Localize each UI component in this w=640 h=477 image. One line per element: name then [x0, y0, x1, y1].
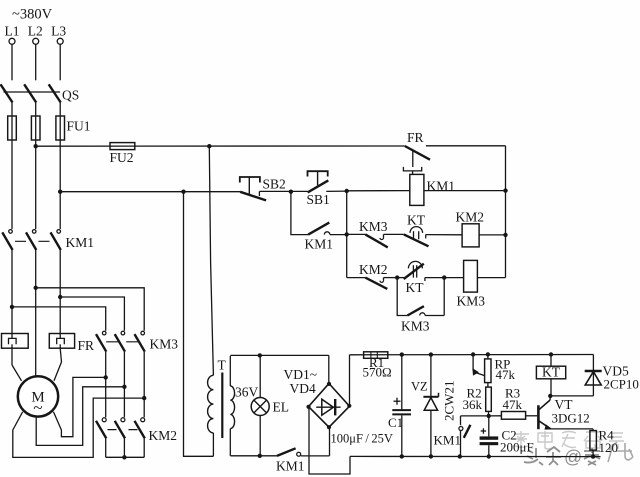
svg-text:VD4: VD4 — [290, 381, 316, 396]
wire star shorting bar — [106, 456, 145, 458]
svg-text:100μF / 25V: 100μF / 25V — [331, 432, 393, 446]
svg-text:T: T — [218, 358, 227, 373]
svg-text:C1: C1 — [388, 415, 403, 430]
wire L3 rail down transformer left — [184, 192, 214, 457]
wire C L1 to KM3 pole1 — [12, 307, 106, 331]
lamp EL — [251, 355, 289, 455]
svg-text:47k: 47k — [503, 397, 523, 412]
svg-text:570Ω: 570Ω — [363, 365, 392, 380]
node RP top rail — [486, 352, 490, 356]
node EL bottom — [258, 454, 262, 458]
node KM3 coil left junction — [442, 275, 446, 279]
svg-text:L1: L1 — [5, 23, 20, 38]
wire QS to FU1 pole3 — [59, 103, 61, 117]
wire right control rail — [505, 146, 507, 278]
contactor KM3 main contacts — [96, 331, 178, 351]
pushbutton SB1 start — [291, 171, 347, 207]
node RP wiper rail — [471, 352, 475, 356]
wire KM3 coil to right rail — [477, 277, 505, 279]
wire DC bottom rail — [350, 455, 601, 457]
node bridge left corner — [306, 405, 310, 409]
svg-text:KT: KT — [542, 365, 561, 380]
svg-text:SB2: SB2 — [263, 176, 286, 191]
resistor R4 — [551, 428, 618, 457]
contact KM2 auxiliary NO — [347, 262, 398, 289]
terminal L3 — [51, 23, 66, 44]
node SB2-SB1 junction — [289, 190, 293, 194]
node1 delta-star junction — [104, 375, 108, 379]
svg-text:47k: 47k — [496, 367, 516, 382]
contactor KM2 main contacts — [96, 418, 177, 443]
wire L1 terminal to QS — [11, 44, 13, 80]
node KT top rail — [549, 352, 553, 356]
svg-text:KM1: KM1 — [66, 235, 95, 250]
svg-text:L2: L2 — [28, 23, 43, 38]
wire W2 motor to node1 — [54, 377, 106, 436]
svg-text:KT: KT — [407, 213, 426, 228]
bridge rectifier VD1~VD4 — [284, 367, 350, 427]
node R2 bottom junction — [487, 414, 491, 418]
resistor R3 — [489, 386, 526, 420]
svg-text:KM1: KM1 — [276, 459, 305, 474]
watermark outline char 代 — [608, 442, 633, 462]
contact KM1 NC discharge — [434, 416, 489, 457]
node C1 bottom — [400, 454, 404, 458]
svg-text:VD1~: VD1~ — [284, 367, 318, 382]
label 36V — [235, 385, 259, 400]
wire QS to FU1 pole2 — [35, 103, 37, 117]
node C1 top — [400, 352, 404, 356]
wire FU2 rail down to transformer primary — [209, 146, 213, 375]
svg-text:SB1: SB1 — [307, 192, 330, 207]
wire bridge DC minus jog — [309, 407, 350, 474]
node KT NC left junction — [395, 275, 399, 279]
svg-text:200μF: 200μF — [500, 440, 534, 455]
node bridge bottom corner — [327, 425, 331, 429]
svg-text:36V: 36V — [235, 385, 259, 400]
label T — [218, 358, 227, 373]
pushbutton SB2 stop — [240, 176, 291, 200]
wire rail after FR to right rail — [426, 145, 506, 147]
svg-text:FR: FR — [407, 130, 424, 145]
node KM1 coil right rail — [503, 188, 507, 192]
node FU2 rail to transformer — [207, 144, 211, 148]
thermal relay FR heater element 1 — [2, 334, 29, 381]
wire L3 terminal to QS — [59, 44, 61, 80]
node star bar junction — [122, 455, 126, 459]
wire V2 motor to node2 — [36, 387, 124, 446]
wire SB2 junction down to KM1 aux — [291, 192, 308, 235]
fuse FU2 — [110, 143, 135, 165]
node VZ top — [429, 352, 433, 356]
switch QS — [1, 84, 80, 102]
node C wireB tap — [58, 295, 62, 299]
svg-text:KM3: KM3 — [359, 219, 388, 234]
label ~380V — [12, 7, 53, 23]
svg-text:QS: QS — [62, 88, 79, 103]
resistor R1 — [363, 352, 392, 380]
node2 delta-star junction — [122, 385, 126, 389]
node EL top — [258, 353, 262, 357]
node C2 bottom — [487, 454, 491, 458]
terminal L2 — [28, 23, 43, 44]
coil KM1 — [410, 174, 455, 205]
wire bridge DC plus to rail — [349, 355, 351, 406]
wire KM2 poles to star bar — [106, 438, 145, 457]
contact KM3 auxiliary NO parallel — [397, 278, 444, 334]
node bridge right corner — [347, 404, 351, 408]
transformer T core — [221, 373, 223, 439]
diode VD5 2CP10 — [550, 355, 639, 396]
svg-text:KM1: KM1 — [434, 433, 461, 448]
node VT collector — [548, 394, 552, 398]
motor M — [18, 376, 58, 417]
svg-text:120: 120 — [599, 440, 619, 455]
wire SB1 to KM1 coil — [347, 190, 410, 192]
node R4 bottom — [591, 454, 595, 458]
node bridge top corner — [327, 382, 331, 386]
svg-text:KM3: KM3 — [150, 337, 179, 352]
wire bridge bottom to KM1 rail — [329, 427, 331, 456]
coil KM2 — [456, 210, 485, 247]
wire top control rail — [36, 145, 405, 147]
wire QS to FU1 pole1 — [11, 103, 13, 117]
terminal L1 — [5, 23, 20, 44]
wire secondary bottom rail — [230, 455, 277, 457]
node KM1 NC bottom — [458, 454, 462, 458]
svg-text:~380V: ~380V — [12, 7, 53, 23]
wire A L2 to KM3 pole3 — [36, 288, 145, 331]
contact KM3 auxiliary NO — [347, 219, 404, 247]
svg-text:36k: 36k — [463, 397, 483, 412]
svg-text:KM3: KM3 — [401, 319, 430, 334]
thermal relay FR heater element 2 — [49, 334, 74, 381]
contactor KM1 main contacts — [2, 230, 94, 250]
wire secondary top rail — [230, 354, 328, 356]
svg-text:VZ: VZ — [411, 380, 428, 394]
contact KM1 auxiliary NO — [305, 223, 347, 252]
node B wireA tap — [34, 286, 38, 290]
svg-text:KM2: KM2 — [456, 210, 485, 225]
wire L3 control tap rail — [60, 191, 240, 193]
zener diode VZ 2CW21 — [411, 355, 457, 457]
transformer T secondary winding — [230, 356, 234, 456]
fuse FU1 — [8, 116, 91, 140]
wire KM1 pole1 down — [11, 250, 13, 334]
transformer T primary winding — [208, 375, 214, 456]
svg-text:KT: KT — [406, 280, 425, 295]
label FR heaters — [78, 338, 95, 353]
svg-text:~: ~ — [33, 398, 42, 417]
node3 delta-star junction — [142, 396, 146, 400]
wire B L3 to KM3 pole2 — [60, 297, 124, 331]
capacitor C2 — [480, 416, 534, 457]
wire KM2 coil to right rail — [479, 234, 505, 236]
node KM2 coil right rail — [503, 233, 507, 237]
svg-text:FU2: FU2 — [110, 150, 134, 165]
wire U2 motor to node3 — [13, 398, 144, 457]
svg-text:2CW21: 2CW21 — [442, 381, 457, 421]
contact KT delayed-open NC — [397, 261, 444, 295]
contact KM1 in lamp/bridge circuit — [276, 448, 330, 473]
wire DC top rail — [350, 354, 594, 356]
wire FU1 to KM1 main contacts — [12, 140, 60, 229]
wire rail to bridge AC top — [328, 355, 330, 383]
wire KM1 pole2 down to motor — [35, 250, 37, 376]
transistor VT 3DG12 — [526, 396, 590, 429]
svg-text:KM1: KM1 — [305, 237, 334, 252]
contact KT delayed-close NO — [404, 213, 462, 247]
svg-text:KM2: KM2 — [359, 262, 388, 277]
capacitor C1 — [388, 355, 411, 457]
coil KM3 — [444, 260, 485, 308]
node L3 control tap — [58, 190, 62, 194]
relay coil KT — [536, 355, 565, 396]
node KM1 aux right junction — [345, 232, 349, 236]
svg-text:FR: FR — [78, 338, 95, 353]
label 100uF/25V — [331, 432, 393, 446]
svg-text:KM3: KM3 — [457, 294, 486, 309]
wire KM1 pole3 down — [59, 250, 61, 334]
svg-text:KM2: KM2 — [149, 428, 178, 443]
wire L2 terminal to QS — [35, 44, 37, 80]
node SB1 right junction — [345, 189, 349, 193]
watermark light gray text row — [514, 431, 624, 449]
wire KM3 poles to KM2 poles — [106, 352, 145, 418]
svg-text:EL: EL — [273, 400, 290, 415]
node VZ bottom — [429, 454, 433, 458]
wire SB1 junction vertical — [346, 191, 348, 278]
svg-text:3DG12: 3DG12 — [552, 411, 590, 426]
svg-text:L3: L3 — [51, 23, 66, 38]
wire KM1 coil to right rail — [424, 190, 506, 192]
resistor R2 — [463, 383, 492, 416]
watermark dark gray text 头条@泰 — [524, 447, 600, 467]
node transformer-left tap — [181, 190, 185, 194]
svg-text:2CP10: 2CP10 — [604, 377, 639, 392]
svg-text:FU1: FU1 — [67, 119, 91, 134]
node A wireC tap — [10, 305, 14, 309]
thermal relay FR NC contact — [403, 130, 430, 174]
node L2-FU2 junction — [34, 144, 38, 148]
potentiometer RP — [473, 354, 515, 382]
